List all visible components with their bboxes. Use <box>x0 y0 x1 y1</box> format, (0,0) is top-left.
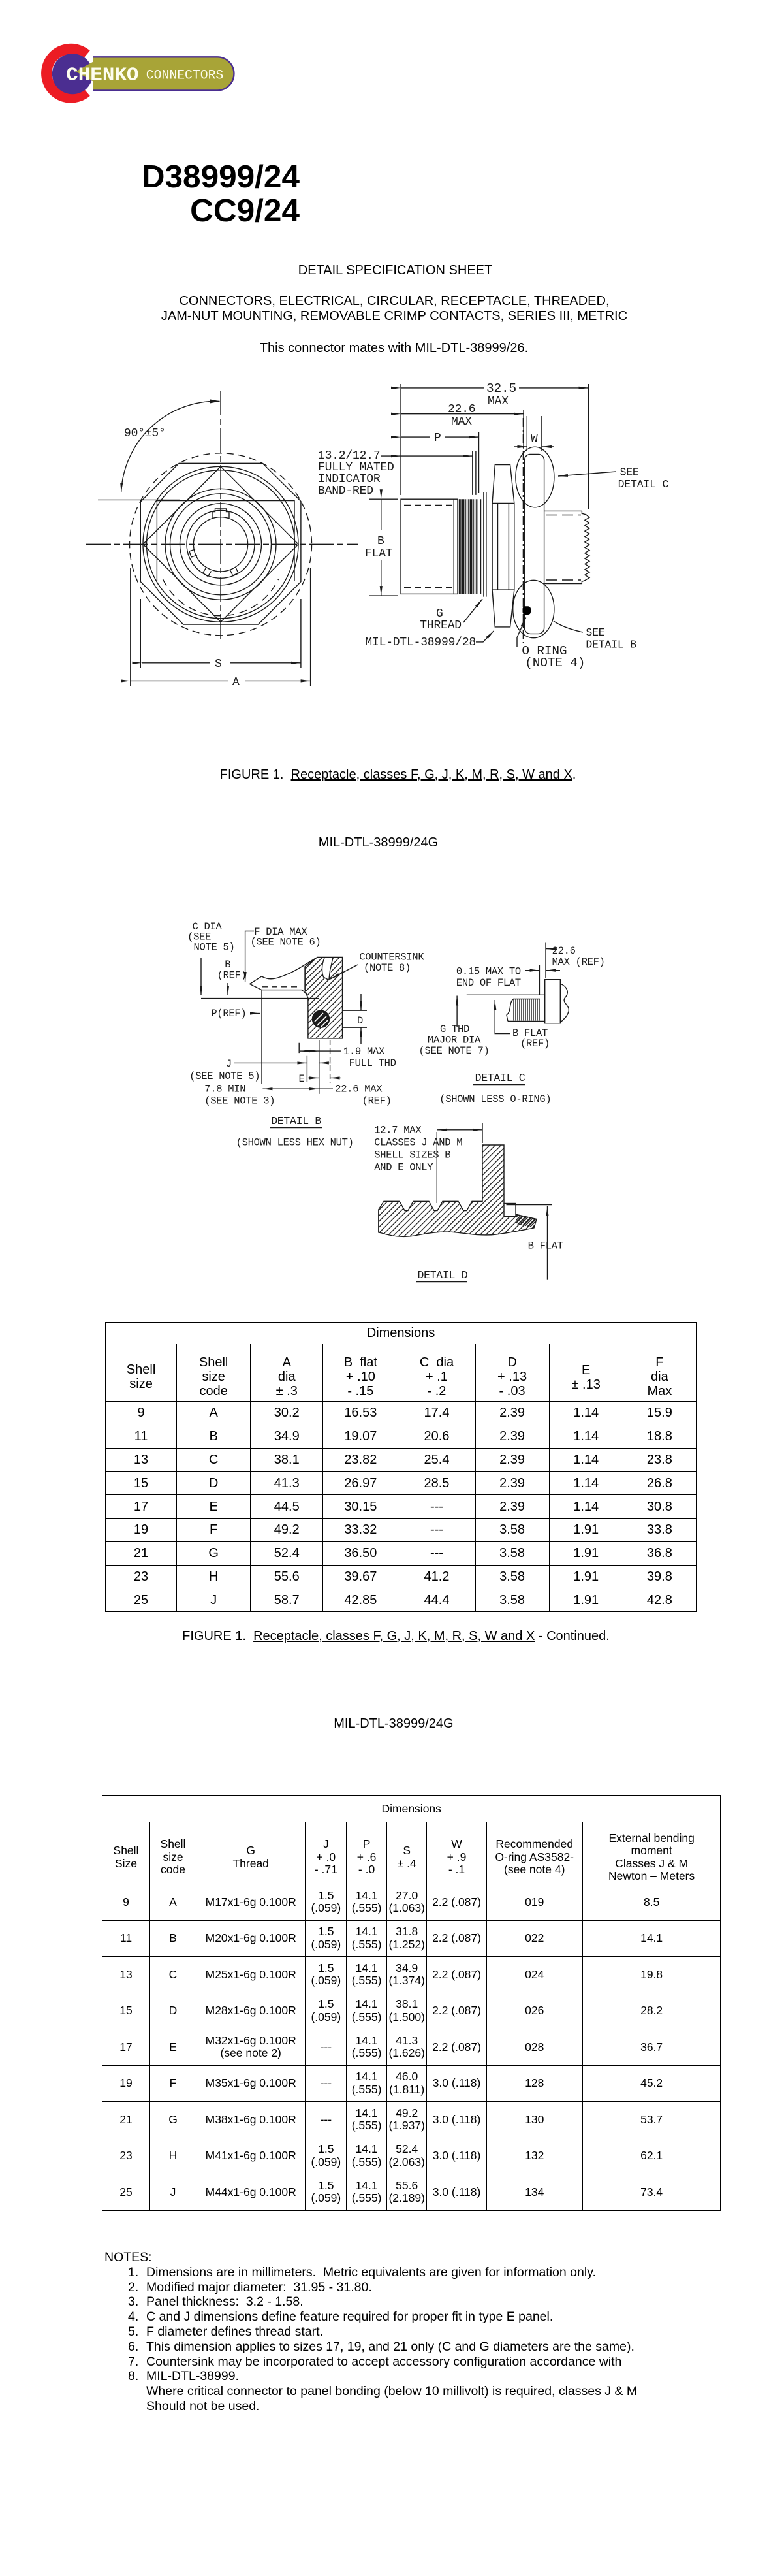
svg-text:THREAD: THREAD <box>420 619 462 632</box>
dim B FLAT line <box>381 499 382 596</box>
dim 1.9 line <box>300 1050 308 1052</box>
dim D arrows <box>360 994 362 1010</box>
svg-text:MAJOR DIA: MAJOR DIA <box>428 1035 481 1046</box>
front view shell circle <box>143 466 298 622</box>
dim P line <box>401 436 479 438</box>
leader P REF <box>250 1013 260 1014</box>
svg-text:DETAIL D: DETAIL D <box>418 1269 468 1281</box>
detail B reference surface line <box>201 998 319 999</box>
hex nut shoulder lines <box>492 504 514 590</box>
panel plane dash-dot line <box>522 418 524 643</box>
svg-text:D: D <box>357 1015 363 1027</box>
logo Chenko Connectors <box>36 38 242 111</box>
front view horizontal centerline <box>86 543 358 545</box>
notes <box>104 2250 637 2414</box>
90 deg reference line <box>98 499 180 500</box>
front view jam nut octagon <box>140 463 301 624</box>
svg-text:(REF): (REF) <box>217 970 247 982</box>
leader C DIA <box>200 958 202 995</box>
front view circle r85 <box>165 489 276 600</box>
dim 32.5 line <box>401 387 589 389</box>
svg-text:W: W <box>531 432 538 445</box>
label G THD MAJOR DIA (SEE NOTE 7) <box>419 1023 490 1057</box>
dim S line <box>142 662 301 664</box>
svg-text:(REF): (REF) <box>520 1038 550 1050</box>
front view diamond (square rotated) <box>143 466 298 622</box>
svg-text:(SHOWN LESS O-RING): (SHOWN LESS O-RING) <box>439 1093 551 1105</box>
detail C thread top and bottom edges <box>508 999 545 1022</box>
svg-text:S: S <box>215 658 222 671</box>
detail C flange broken edge <box>560 984 569 1023</box>
front view insert ring r52 <box>187 510 255 578</box>
leader B FLAT <box>495 1000 510 1034</box>
table 2 <box>102 1795 721 2211</box>
label G THREAD <box>420 607 462 632</box>
svg-text:(SHOWN LESS HEX NUT): (SHOWN LESS HEX NUT) <box>236 1137 354 1149</box>
label B FLAT <box>365 535 393 560</box>
leader SEE DETAIL B <box>554 621 583 632</box>
svg-text:G THD: G THD <box>440 1023 469 1035</box>
front view outer dashed circle (A dia) <box>130 453 312 636</box>
dim A line <box>131 680 311 681</box>
svg-text:90°±5°: 90°±5° <box>124 427 166 440</box>
detail C thread lines <box>514 999 539 1021</box>
22.6 right extension <box>523 410 524 449</box>
svg-text:CLASSES J AND M: CLASSES J AND M <box>374 1137 462 1149</box>
logo olive pill <box>93 57 234 90</box>
front view circle r62.5 <box>180 504 262 585</box>
dim S extension lines <box>140 599 301 668</box>
detail D step notch (white) <box>504 1204 516 1217</box>
svg-text:DETAIL B: DETAIL B <box>271 1115 321 1127</box>
dim 13.2 line <box>401 455 473 457</box>
detail C shell surface line <box>467 994 545 995</box>
svg-text:A: A <box>232 676 240 689</box>
front view thread circle dashed (bottom arc) <box>163 579 279 616</box>
front view key notch bottom-right <box>230 568 239 576</box>
svg-text:22.6: 22.6 <box>448 403 475 416</box>
table 1 caption <box>4 1629 784 1644</box>
label F DIA MAX (SEE NOTE 6) <box>251 926 321 948</box>
logo red C ring <box>46 49 86 97</box>
svg-text:FULLY MATED: FULLY MATED <box>318 461 394 474</box>
detail B countersink edge <box>322 958 333 980</box>
B flat extension ticks <box>369 499 398 596</box>
logo purple disc <box>52 54 93 94</box>
svg-text:J: J <box>226 1058 232 1070</box>
label 12.7 MAX CLASSES J AND M SHELL SIZES B AND E ONLY <box>374 1125 462 1174</box>
detail C balloon ellipse <box>516 447 554 507</box>
hex nut facet lines <box>498 504 509 590</box>
svg-text:(NOTE 4): (NOTE 4) <box>525 656 585 670</box>
table 1 <box>105 1322 697 1612</box>
headings <box>3 263 784 278</box>
rear shell thread zigzag <box>582 513 589 581</box>
svg-text:FLAT: FLAT <box>365 547 393 560</box>
label C DIA (SEE NOTE 5) <box>187 921 234 954</box>
label 1.9 MAX FULL THD <box>343 1046 396 1069</box>
label B (REF) <box>217 959 247 982</box>
dim W arrows <box>514 446 527 447</box>
P reference vertical line <box>261 990 262 1084</box>
svg-text:32.5: 32.5 <box>486 381 516 396</box>
dim 0.15 arrows <box>525 970 539 971</box>
svg-text:CONNECTORS: CONNECTORS <box>146 68 223 83</box>
svg-text:B: B <box>377 535 384 548</box>
svg-text:E: E <box>299 1073 305 1085</box>
cylinder face line <box>453 499 454 594</box>
leader SEE DETAIL C <box>558 472 616 476</box>
detail D fine thread strip <box>516 1214 537 1228</box>
svg-text:DETAIL B: DETAIL B <box>586 639 636 651</box>
svg-text:0.15 MAX TO: 0.15 MAX TO <box>456 966 521 978</box>
dim A extension lines <box>131 568 311 686</box>
svg-text:MIL-DTL-38999/28: MIL-DTL-38999/28 <box>365 636 476 649</box>
front view shell circle 2 <box>147 470 295 619</box>
label 7.8 MIN (SEE NOTE 3) <box>204 1084 275 1107</box>
svg-text:13.2/12.7: 13.2/12.7 <box>318 449 380 462</box>
label COUNTERSINK (NOTE 8) <box>359 952 424 974</box>
dim D tangent lines <box>343 1010 368 1027</box>
red indicator band lines <box>460 499 477 594</box>
leader MIL-DTL-38999/28 <box>476 631 494 642</box>
label SEE DETAIL C <box>618 466 669 491</box>
leader G THREAD <box>463 599 482 622</box>
svg-text:12.7 MAX: 12.7 MAX <box>374 1125 422 1136</box>
svg-text:SEE: SEE <box>620 466 639 479</box>
washer lines <box>484 492 486 597</box>
detail B dim verticals <box>299 1040 319 1094</box>
leader COUNTERSINK <box>330 965 358 979</box>
label B FLAT (REF) detail C <box>512 1027 550 1050</box>
svg-text:P: P <box>434 432 441 445</box>
o-ring cross-section circle <box>313 1010 330 1027</box>
svg-text:(SEE NOTE 7): (SEE NOTE 7) <box>419 1045 490 1057</box>
svg-text:G: G <box>436 607 443 620</box>
side view 32.5 dim extension left <box>400 384 401 495</box>
leader O RING <box>517 618 526 647</box>
svg-text:22.6: 22.6 <box>552 945 576 957</box>
svg-text:1.9 MAX: 1.9 MAX <box>343 1046 385 1057</box>
svg-text:SEE: SEE <box>586 626 604 639</box>
svg-text:P(REF): P(REF) <box>211 1008 246 1020</box>
mounting flange disc <box>525 454 544 634</box>
detail D serrated bar with column (hatched) <box>379 1145 537 1236</box>
detail B beak inner vertical <box>304 967 306 990</box>
svg-text:CHENKO: CHENKO <box>66 64 138 86</box>
svg-text:FULL THD: FULL THD <box>349 1057 396 1069</box>
details drawing <box>0 914 784 1310</box>
P right extension <box>478 432 480 493</box>
FIGURE 1 drawing <box>0 366 784 748</box>
front view insert bore r41.6 <box>193 517 247 572</box>
dim B FLAT vertical <box>547 1206 548 1280</box>
svg-text:END OF FLAT: END OF FLAT <box>456 977 521 989</box>
label SEE DETAIL B <box>586 626 636 651</box>
detail B dashed bore line <box>262 986 298 988</box>
svg-text:(SEE NOTE 3): (SEE NOTE 3) <box>204 1095 275 1107</box>
rear shell right edge stubs <box>581 511 582 583</box>
svg-text:AND E ONLY: AND E ONLY <box>374 1162 433 1174</box>
dim 22.6 line <box>401 413 524 415</box>
front view key notch left <box>189 549 197 557</box>
12.7 extension vertical <box>482 1123 483 1143</box>
W extension lines <box>527 416 542 451</box>
svg-text:COUNTERSINK: COUNTERSINK <box>359 952 424 963</box>
svg-text:NOTE 5): NOTE 5) <box>194 941 235 953</box>
13.2 extension lines <box>473 451 476 495</box>
svg-text:7.8 MIN: 7.8 MIN <box>204 1084 245 1095</box>
label 22.6 MAX (REF) <box>335 1084 391 1107</box>
svg-text:DETAIL C: DETAIL C <box>618 478 669 491</box>
figure caption <box>6 767 784 782</box>
detail B flange beak outline <box>250 958 318 984</box>
label J (SEE NOTE 5) <box>189 1058 260 1082</box>
front view master key tab <box>212 509 229 518</box>
detail C thread broken left edge <box>507 999 513 1022</box>
svg-text:MAX: MAX <box>451 415 472 428</box>
leader B REF <box>227 983 228 995</box>
label O RING (NOTE 4) <box>522 644 585 670</box>
rear shell dashed lines <box>546 515 581 516</box>
thread start lines <box>478 499 480 594</box>
main cylinder body <box>401 499 458 594</box>
leader G THD <box>456 996 458 1028</box>
svg-text:B FLAT: B FLAT <box>528 1240 563 1252</box>
detail C flange rect <box>545 980 561 1023</box>
label 22.6 MAX (REF) detail C <box>552 945 605 968</box>
B flat step edge line <box>507 1204 552 1206</box>
front view key notch bottom-left <box>203 568 212 577</box>
90 deg arc leader <box>121 401 220 492</box>
0.15 extension line <box>539 965 540 995</box>
front view vertical centerline <box>220 391 221 641</box>
svg-text:B: B <box>225 959 230 971</box>
svg-text:SHELL SIZES B: SHELL SIZES B <box>374 1150 450 1161</box>
dim 12.7 line <box>437 1129 460 1131</box>
side view 32.5 dim extension right <box>588 384 589 509</box>
hex jam nut outline <box>492 465 514 627</box>
svg-text:(REF): (REF) <box>362 1095 392 1107</box>
title <box>0 160 300 228</box>
label 0.15 MAX TO END OF FLAT <box>456 966 521 990</box>
front view mounting square <box>157 501 294 581</box>
label 13.2/12.7 FULLY MATED INDICATOR BAND-RED <box>318 449 394 498</box>
svg-text:INDICATOR: INDICATOR <box>318 473 381 486</box>
detail B countersink notch (white) <box>322 958 333 980</box>
front view circle r77.5 <box>170 494 272 595</box>
label MIL-DTL-38999/24G second <box>334 1716 453 1731</box>
svg-text:BAND-RED: BAND-RED <box>318 485 373 498</box>
svg-text:MAX (REF): MAX (REF) <box>552 956 605 968</box>
detail B balloon ellipse <box>513 580 554 637</box>
dim J line <box>234 1062 307 1063</box>
dim 22.6 line <box>262 1088 274 1089</box>
svg-text:(NOTE 8): (NOTE 8) <box>364 962 411 974</box>
leader to 13.2 text <box>381 455 401 457</box>
rear shell top/bottom <box>544 511 582 583</box>
12.7 leader vertical <box>436 1132 437 1203</box>
leader F DIA <box>245 931 254 982</box>
detail B beak underside <box>250 984 308 999</box>
label 22.6 MAX <box>447 403 478 428</box>
svg-text:22.6 MAX: 22.6 MAX <box>335 1084 383 1095</box>
detail B hatched shell section <box>305 958 342 1038</box>
dim 22.6 arrow <box>546 948 551 950</box>
svg-text:(SEE NOTE 5): (SEE NOTE 5) <box>189 1071 260 1082</box>
logo olive wedge <box>76 57 101 86</box>
o-ring (black) <box>523 606 531 615</box>
detail C 22.6 extension line <box>545 943 546 978</box>
label MIL-DTL-38999/24G <box>319 835 438 850</box>
cylinder dashed lines <box>404 504 454 506</box>
svg-text:DETAIL C: DETAIL C <box>475 1072 525 1084</box>
svg-text:MAX: MAX <box>488 395 509 408</box>
dim E arrows <box>308 1077 319 1078</box>
svg-text:(SEE NOTE 6): (SEE NOTE 6) <box>251 937 321 948</box>
